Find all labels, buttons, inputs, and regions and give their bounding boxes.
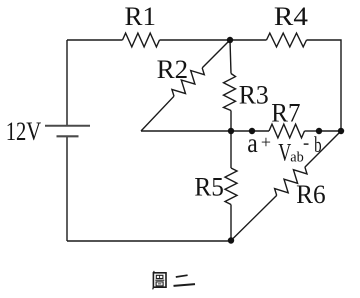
node junction right (R4/R6/R7) [338,128,344,134]
wire bottom [67,240,231,242]
resistor R6 [275,167,307,195]
wire R6 upper lead to right node [305,131,341,167]
caption 圖 middle stroke [155,279,164,281]
caption 圖 inner bottom tick [158,283,161,285]
caption 圖 bottom-left brush tail [153,287,154,289]
caption 圖 inner top tick [159,275,161,278]
resistor R2 [172,68,204,96]
wire top segment left [67,39,123,41]
resistor R7 [269,124,305,138]
resistor R4 [267,33,307,47]
node a [249,128,255,134]
wire R5 bottom lead [230,205,232,241]
wire left vertical top (battery + to top-left corner) [66,40,68,126]
svg-text:b: b [314,132,322,157]
wire R3 top lead from node [230,40,231,74]
wire R7 to node b [305,130,320,132]
caption 圖 inner top box [156,275,163,278]
wire middle left segment [141,130,231,132]
wire R3 bottom lead [230,111,232,132]
caption 圖 inner bottom box [156,282,163,286]
svg-text:R7: R7 [271,98,300,128]
wire top-right corner to right vertical [307,40,342,131]
wire top segment middle [160,39,231,41]
wire left vertical bottom (battery - to bottom-left corner) [66,136,68,241]
svg-text:R6: R6 [296,179,326,209]
svg-text:ab: ab [290,149,304,165]
node junction top (R1/R2/R3/R4) [227,37,233,43]
svg-text:a: a [247,128,258,158]
caption 圖 (figure) outer box [153,271,166,290]
node junction bottom (R5/R6) [228,237,234,243]
caption 二 bottom stroke [174,284,196,286]
svg-text:R4: R4 [274,1,308,31]
wire R6 lower lead [231,195,277,240]
caption 圖 top-left brush tip [153,271,155,274]
node b [316,128,322,134]
resistor R5 [225,168,237,205]
wire top segment right [230,39,267,41]
wire R5 top lead [230,131,232,168]
wire node b to right node [319,130,341,132]
wire a to R7 [252,130,269,132]
wire R2 lower lead [141,96,174,131]
battery V1 short plate (-) [57,135,79,137]
svg-text:R2: R2 [157,54,189,84]
battery V1 long plate (+) [45,125,90,127]
resistor R1 [123,33,160,47]
caption 二 top stroke [176,275,188,277]
svg-text:R5: R5 [194,172,224,202]
svg-text:+: + [261,132,271,152]
wire middle node to a [231,130,252,132]
svg-text:R3: R3 [239,80,269,110]
svg-text:R1: R1 [125,1,157,31]
wire R2 upper lead to top node [202,40,230,68]
svg-text:12V: 12V [6,116,42,146]
label minus sign [304,143,309,144]
resistor R3 [224,74,236,111]
node junction middle (R3/R5 at middle wire) [228,128,234,134]
